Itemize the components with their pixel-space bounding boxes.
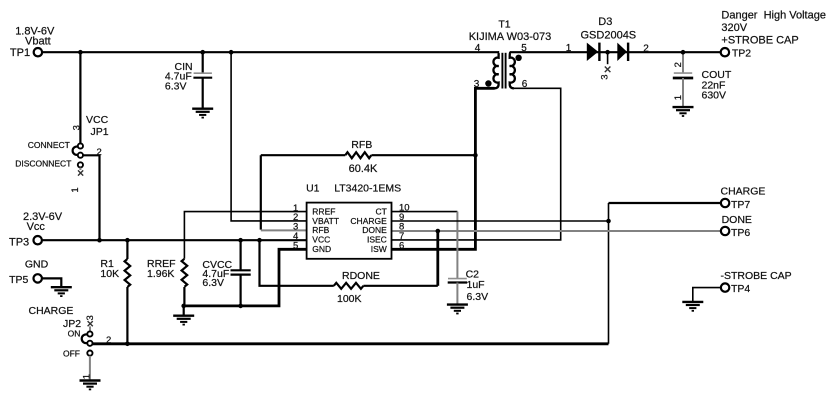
svg-text:RDONE: RDONE: [342, 270, 380, 282]
svg-text:100K: 100K: [337, 293, 362, 305]
svg-text:TP5: TP5: [9, 274, 28, 286]
svg-text:5: 5: [521, 43, 527, 54]
svg-text:T1: T1: [498, 19, 510, 31]
svg-text:CONNECT: CONNECT: [28, 140, 70, 150]
svg-text:1: 1: [566, 43, 572, 54]
svg-text:630V: 630V: [702, 90, 727, 102]
svg-text:2: 2: [643, 44, 649, 55]
svg-text:3: 3: [599, 75, 610, 80]
svg-text:TP2: TP2: [732, 47, 751, 59]
svg-text:DISCONNECT: DISCONNECT: [15, 159, 71, 169]
svg-text:OFF: OFF: [63, 348, 80, 358]
svg-text:+STROBE CAP: +STROBE CAP: [721, 35, 798, 47]
svg-text:CHARGE: CHARGE: [721, 185, 766, 197]
svg-text:VCC: VCC: [86, 114, 109, 126]
svg-text:TP6: TP6: [731, 227, 750, 239]
svg-text:60.4K: 60.4K: [349, 163, 378, 175]
svg-text:TP7: TP7: [731, 199, 750, 211]
svg-text:GND: GND: [312, 244, 331, 254]
svg-text:KIJIMA W03-073: KIJIMA W03-073: [469, 31, 552, 43]
svg-text:6.3V: 6.3V: [202, 277, 224, 289]
svg-text:2: 2: [97, 147, 102, 158]
svg-text:5: 5: [293, 240, 298, 251]
svg-text:GND: GND: [25, 258, 49, 270]
svg-text:U1: U1: [306, 183, 320, 195]
svg-text:2: 2: [673, 62, 684, 67]
svg-text:ON: ON: [68, 329, 81, 339]
svg-text:GSD2004S: GSD2004S: [581, 30, 637, 42]
svg-text:Vbatt: Vbatt: [25, 35, 51, 47]
svg-text:1: 1: [673, 95, 684, 100]
svg-text:6: 6: [522, 79, 528, 90]
svg-text:-STROBE CAP: -STROBE CAP: [721, 270, 792, 282]
svg-text:1: 1: [82, 374, 93, 379]
svg-text:10K: 10K: [100, 268, 119, 280]
svg-text:4: 4: [475, 43, 481, 54]
svg-text:1.96K: 1.96K: [147, 268, 174, 280]
svg-text:DONE: DONE: [722, 214, 752, 226]
svg-text:3: 3: [85, 315, 96, 320]
svg-text:2: 2: [106, 335, 111, 346]
svg-text:Danger High Voltage: Danger High Voltage: [721, 10, 826, 22]
svg-text:TP3: TP3: [9, 236, 29, 248]
svg-text:6: 6: [399, 240, 404, 251]
svg-text:JP1: JP1: [91, 126, 109, 138]
svg-text:6.3V: 6.3V: [467, 291, 489, 303]
svg-text:LT3420-1EMS: LT3420-1EMS: [334, 183, 401, 195]
svg-text:1: 1: [70, 187, 81, 192]
svg-text:3: 3: [474, 79, 480, 90]
svg-text:D3: D3: [598, 16, 612, 28]
svg-text:6.3V: 6.3V: [165, 81, 187, 93]
svg-text:RFB: RFB: [351, 139, 372, 151]
svg-text:ISW: ISW: [371, 244, 387, 254]
svg-text:Vcc: Vcc: [27, 221, 46, 233]
svg-text:3: 3: [71, 125, 82, 130]
svg-text:TP4: TP4: [731, 283, 750, 295]
svg-text:CHARGE: CHARGE: [29, 305, 74, 317]
svg-text:320V: 320V: [721, 22, 747, 34]
svg-text:TP1: TP1: [10, 47, 30, 59]
svg-text:1uF: 1uF: [467, 279, 485, 291]
